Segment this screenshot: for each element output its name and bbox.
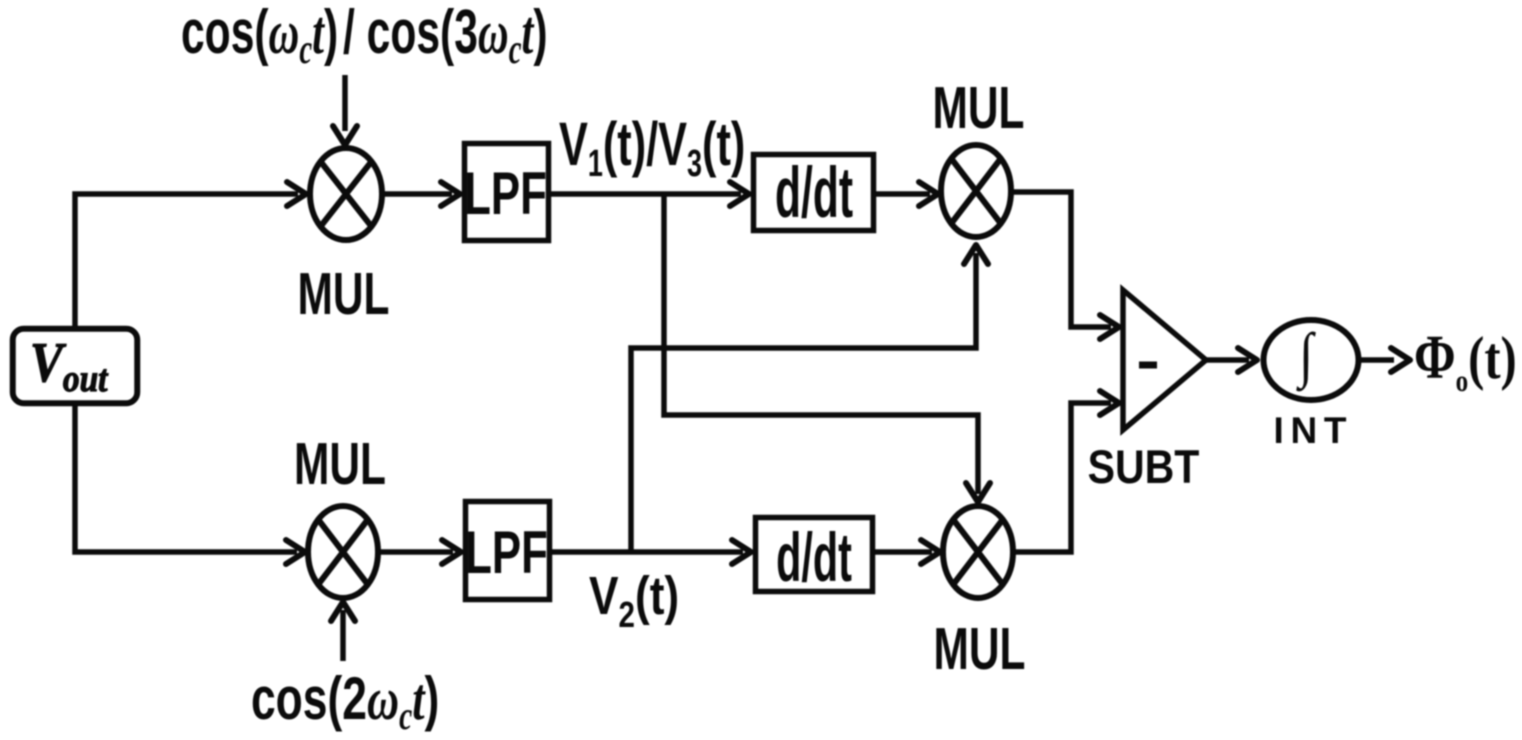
svg-text:MUL: MUL — [294, 430, 386, 497]
svg-text:MUL: MUL — [298, 260, 390, 327]
svg-text:cos(ωct)/ cos(3ωct): cos(ωct)/ cos(3ωct) — [181, 0, 548, 72]
svg-text:MUL: MUL — [934, 615, 1026, 682]
svg-text:LPF: LPF — [465, 519, 548, 586]
svg-text:d/dt: d/dt — [776, 519, 852, 597]
svg-text:V1(t)/V3(t): V1(t)/V3(t) — [559, 111, 745, 184]
svg-text:SUBT: SUBT — [1088, 441, 1200, 493]
svg-text:d/dt: d/dt — [775, 154, 853, 233]
svg-text:MUL: MUL — [933, 74, 1025, 141]
svg-text:LPF: LPF — [464, 160, 547, 227]
